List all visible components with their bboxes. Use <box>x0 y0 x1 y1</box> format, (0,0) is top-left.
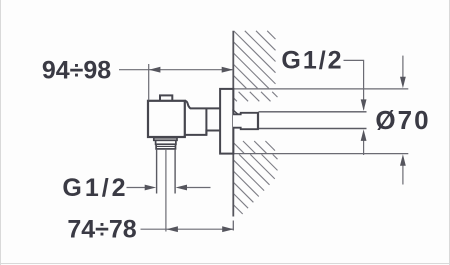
extension line: outlet thread right (G1/2) <box>174 149 176 194</box>
wall face line <box>232 31 234 217</box>
center axis line <box>165 149 167 232</box>
body right lower edge to cylinder <box>184 135 186 137</box>
escutcheon flange <box>220 89 233 154</box>
svg-text:G1/2: G1/2 <box>62 174 128 202</box>
body block <box>148 101 185 137</box>
top tab <box>160 95 172 101</box>
nipple inside wall <box>233 110 259 130</box>
wall hatching <box>234 31 278 214</box>
valve body <box>148 89 233 154</box>
svg-text:Ø70: Ø70 <box>375 105 430 135</box>
extension line: outlet thread left (G1/2) <box>156 149 158 194</box>
extension line: escutcheon top (O70) <box>233 88 408 90</box>
svg-text:94÷98: 94÷98 <box>42 56 111 84</box>
extension line: inlet tail top (G1/2) <box>259 111 367 113</box>
svg-text:G1/2: G1/2 <box>281 46 343 74</box>
cylinder right edge / divider <box>205 108 207 134</box>
cylinder bottom <box>185 131 220 135</box>
extension line: inlet tail bottom (G1/2) <box>259 128 367 130</box>
wall face dashed extension <box>232 221 234 231</box>
outlet stack under body <box>154 138 177 149</box>
cylinder + ring top profile <box>185 101 220 109</box>
extension line: escutcheon bottom (O70) <box>233 153 408 155</box>
svg-text:74÷78: 74÷78 <box>67 215 136 243</box>
